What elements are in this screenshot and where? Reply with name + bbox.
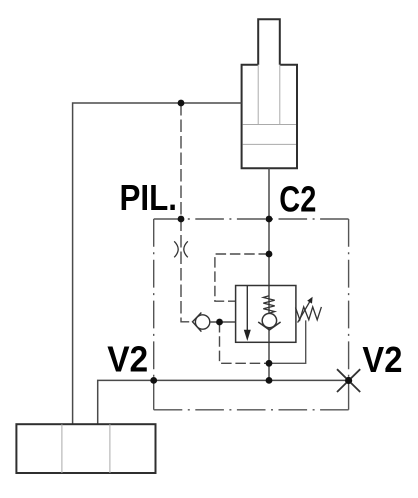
valve flow arrowhead [244, 330, 251, 341]
junction dot C2 pilot branch [266, 251, 273, 258]
envelope top edge dash-dot [154, 218, 349, 220]
envelope right edge dash-dot [348, 219, 350, 410]
junction dot X center [345, 377, 352, 384]
cylinder rod inner line left [257, 65, 259, 125]
relief adjustment arrowhead [307, 297, 312, 304]
cylinder piston line upper [243, 124, 296, 126]
pilot dashed branch from C2 to valve spool left [215, 254, 269, 301]
envelope bottom edge dash-dot [154, 409, 349, 411]
svg-text:PIL.: PIL. [120, 177, 178, 218]
valve flow arrow line [246, 286, 248, 331]
counterbalance valve body [236, 286, 296, 343]
dashed bypass line check valve junction down and right to C2 [220, 322, 270, 363]
plugged port X symbol [337, 369, 360, 392]
svg-text:C2: C2 [279, 179, 316, 220]
check valve seat [193, 313, 202, 332]
check valve ball [195, 315, 209, 329]
wire relief drain from C2 right then up to spring [269, 320, 306, 363]
valve ball [262, 313, 276, 327]
pilot dashed line PIL from top junction down to check valve [181, 103, 193, 322]
wire C2 vertical line cylinder to V2 line [268, 168, 270, 380]
cylinder rod inner line right [279, 65, 281, 125]
cylinder piston line lower [243, 143, 296, 145]
junction dot check valve [216, 319, 223, 326]
junction dot V2 envelope left [150, 377, 157, 384]
valve spring above ball [263, 296, 274, 313]
orifice left arc [174, 241, 178, 257]
svg-text:V2: V2 [107, 339, 148, 380]
manifold divider left [61, 424, 63, 473]
wire check valve to valve body [210, 321, 236, 323]
wire left supply: cylinder stub, left vertical down to block [73, 103, 242, 424]
cylinder body [242, 65, 297, 169]
junction dot pilot envelope top [178, 216, 185, 223]
relief adjustment arrow [298, 300, 311, 322]
junction dot C2 drain [266, 360, 273, 367]
junction dot C2 V2 [266, 377, 273, 384]
cylinder rod [258, 19, 280, 64]
valve ball seat [258, 322, 280, 330]
envelope left edge dash-dot [153, 219, 155, 410]
adjustable relief spring zigzag [296, 307, 322, 320]
svg-text:V2: V2 [362, 339, 402, 380]
orifice right arc [184, 241, 188, 257]
manifold block [16, 424, 155, 473]
junction dot top pilot [178, 100, 185, 107]
manifold divider right [109, 424, 111, 473]
wire V2 horizontal line [98, 380, 349, 424]
junction dot C2 envelope top [266, 216, 273, 223]
